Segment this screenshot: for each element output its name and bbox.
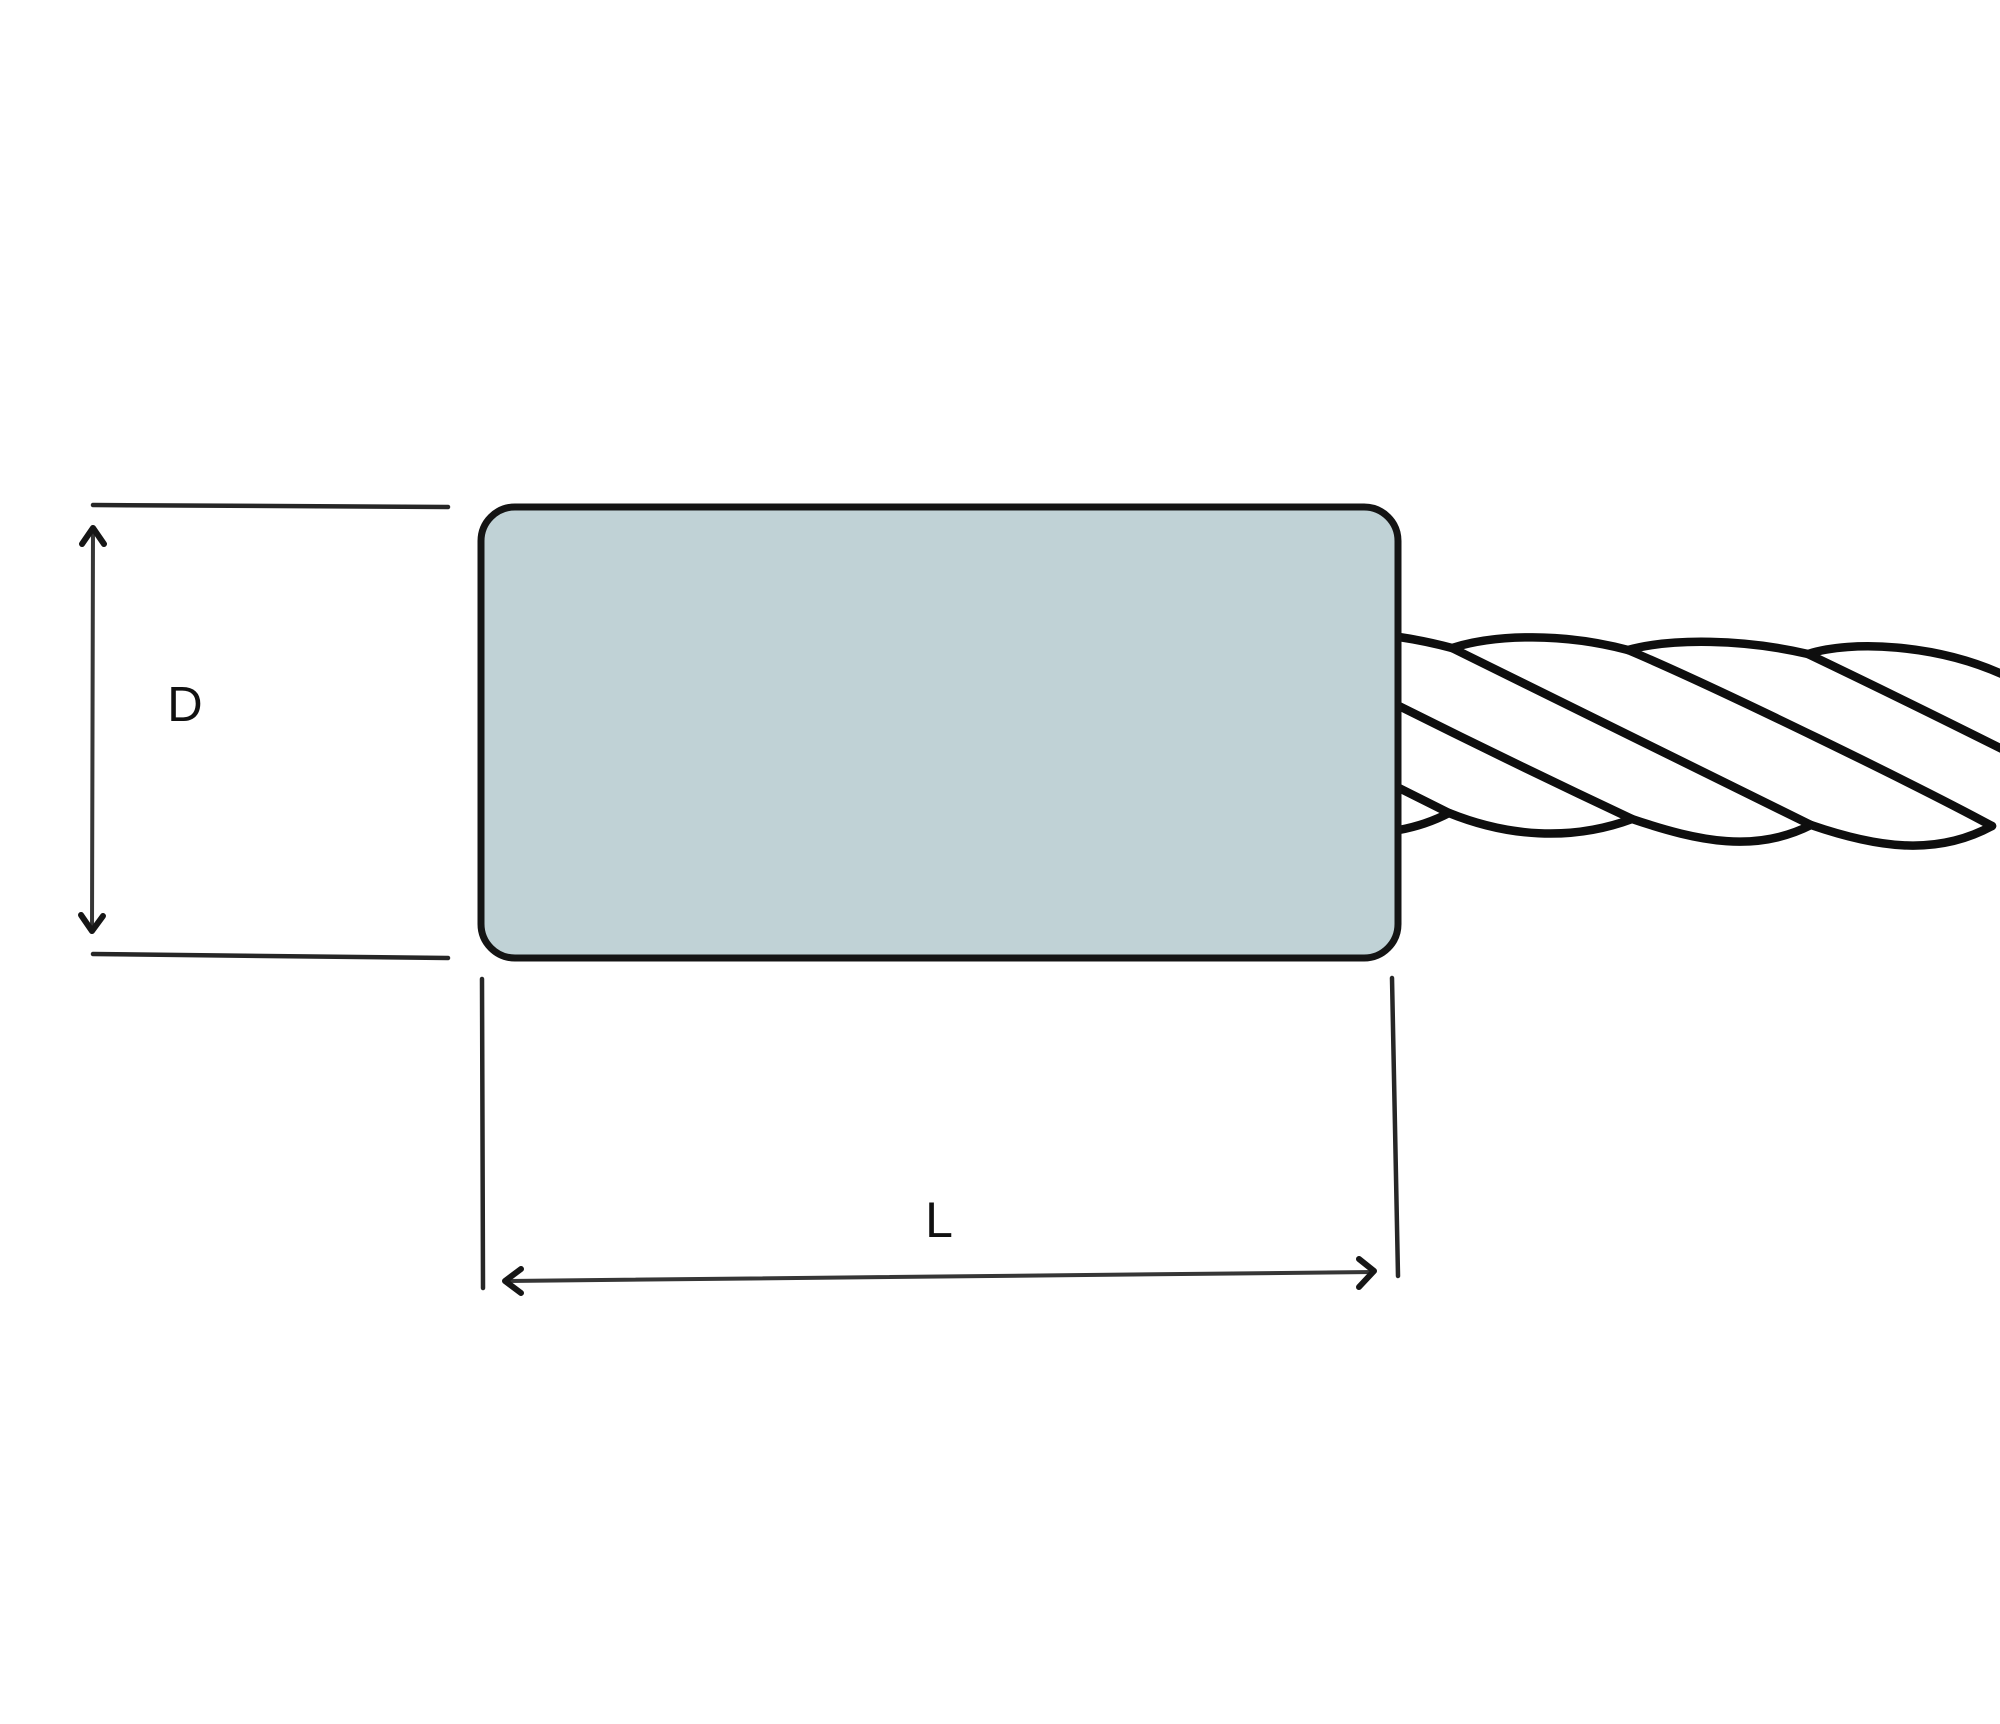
dimension D: top extension line xyxy=(93,505,448,507)
rope: top arc 2 xyxy=(1628,642,1808,654)
dimension D: bottom arrowhead xyxy=(81,915,103,931)
rope: bottom arc 1 xyxy=(1449,813,1632,834)
dimension L: left extension line xyxy=(482,979,483,1288)
dimension L: right arrowhead xyxy=(1359,1259,1374,1287)
rope: diagonal from ferrule to B1 xyxy=(1399,706,1632,819)
svg-text:L: L xyxy=(925,1192,953,1248)
rope: top arc 1 xyxy=(1452,637,1628,650)
rope: top arc tail at ferrule xyxy=(1399,637,1452,648)
rope: bottom arc 3 xyxy=(1811,825,1992,846)
dimension D: top arrowhead xyxy=(82,528,104,544)
rope: diagonal D2 (clipped) xyxy=(1808,654,2000,750)
rope: top arc 3 (rope end, clipped) xyxy=(1808,646,2000,675)
rope: diagonal D1 xyxy=(1628,650,1992,826)
rope: diagonal D0 xyxy=(1452,648,1811,825)
rope: bottom arc 2 xyxy=(1632,819,1811,842)
rope: bottom arc tail at ferrule xyxy=(1399,813,1449,830)
dimension L: horizontal line xyxy=(505,1272,1374,1281)
dimension D: bottom extension line xyxy=(93,954,448,958)
rope: short diagonal from ferrule to B0 xyxy=(1399,788,1449,813)
dimension D: vertical line xyxy=(92,528,93,931)
dimension L: right extension line xyxy=(1392,978,1398,1276)
ferrule body (rounded rectangle) xyxy=(481,507,1398,958)
rope strands group xyxy=(1399,637,2000,846)
svg-text:D: D xyxy=(167,678,202,732)
dimension L: left arrowhead xyxy=(505,1269,521,1293)
